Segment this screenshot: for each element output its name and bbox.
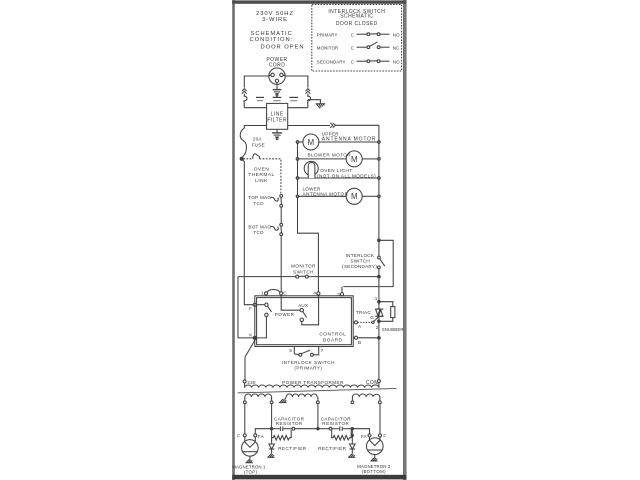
labels capacitor/resistor 2 <box>321 416 352 426</box>
junction: fuse output <box>240 157 243 160</box>
svg-text:C: C <box>351 45 354 50</box>
motor right bus wire <box>378 142 380 240</box>
junction: B wire on bus <box>378 337 381 340</box>
resistor (HV2) <box>329 427 351 440</box>
svg-text:BOARD: BOARD <box>323 337 343 343</box>
svg-text:RESISTOR: RESISTOR <box>322 421 349 426</box>
legend secondary switch <box>317 59 400 64</box>
magnetron 1 terminal FA <box>254 434 265 439</box>
magnetron 1 <box>232 437 266 475</box>
pin A <box>353 321 362 329</box>
svg-text:F: F <box>237 434 240 439</box>
svg-text:(TOP): (TOP) <box>244 469 258 474</box>
rectifier D2 <box>318 430 355 458</box>
capacitor (HV1) <box>273 426 292 431</box>
svg-text:NO: NO <box>393 32 400 37</box>
svg-text:ANTENNA MOTOR: ANTENNA MOTOR <box>303 192 349 197</box>
power transformer T1 <box>238 380 397 404</box>
svg-text:SECONDARY: SECONDARY <box>317 59 346 64</box>
monitor switch <box>238 264 378 278</box>
svg-text:8: 8 <box>289 348 292 353</box>
svg-text:3-WIRE: 3-WIRE <box>262 17 288 23</box>
fuse F1 20A <box>240 128 265 157</box>
magnetron 1 terminal F <box>237 434 246 439</box>
svg-text:M: M <box>308 138 315 147</box>
svg-text:7: 7 <box>321 348 324 353</box>
svg-text:FA: FA <box>258 434 265 439</box>
svg-text:SNUBBER: SNUBBER <box>382 327 404 332</box>
transformer core <box>238 389 397 393</box>
wire: between TCOs <box>280 207 282 223</box>
svg-text:TCO: TCO <box>253 201 264 206</box>
connector chevrons (output) <box>330 123 335 128</box>
svg-text:AUX: AUX <box>298 303 308 308</box>
magnetron 2 terminal F <box>379 434 387 439</box>
svg-text:NO: NO <box>393 59 400 64</box>
svg-text:C: C <box>283 291 287 296</box>
svg-text:(SECONDARY): (SECONDARY) <box>342 264 377 269</box>
svg-text:230: 230 <box>247 380 256 385</box>
wire: bypass from bus junction to pin 3 <box>343 240 393 286</box>
inductor loop right <box>308 94 311 108</box>
interlock switch secondary <box>342 239 385 275</box>
svg-text:B: B <box>358 340 361 345</box>
svg-text:K: K <box>249 332 253 337</box>
wire: cord left leg <box>244 75 271 88</box>
svg-text:TOP MAG: TOP MAG <box>248 195 271 200</box>
svg-text:MONITOR: MONITOR <box>317 45 339 50</box>
oven thermal link <box>243 154 281 195</box>
svg-text:F: F <box>249 306 252 311</box>
connector chevrons left <box>242 89 247 94</box>
title: 230V 50HZ 3-WIRE <box>256 11 294 23</box>
wire: to right bus corner <box>335 125 379 142</box>
svg-text:1: 1 <box>261 291 264 296</box>
wire: pin K to transformer 230 <box>245 339 255 380</box>
svg-text:FUSE: FUSE <box>252 142 265 147</box>
wire: rail to FA2 <box>354 429 370 434</box>
capacitor (line filter) 2 <box>273 97 282 100</box>
triac Q1 <box>356 296 384 337</box>
interlock switch primary <box>282 347 335 371</box>
snubber R-C <box>380 302 403 332</box>
svg-text:M: M <box>351 155 358 164</box>
interlock switch schematic legend box <box>312 5 402 72</box>
wire: right leg to chassis ground <box>308 100 321 104</box>
svg-text:TCO: TCO <box>253 230 264 235</box>
junction: monitor to right bus <box>378 275 381 278</box>
wire: bus down to triac <box>378 278 380 301</box>
svg-text:INTERLOCK SWITCH: INTERLOCK SWITCH <box>282 360 335 365</box>
junction: G1 right leg on HV rail <box>270 404 272 430</box>
top mag TCO <box>248 195 282 208</box>
svg-text:FILTER: FILTER <box>267 117 287 123</box>
svg-text:MONITOR: MONITOR <box>291 264 316 269</box>
legend primary switch <box>317 32 400 37</box>
svg-text:POWER TRANSFORMER: POWER TRANSFORMER <box>282 380 344 385</box>
pin 4 <box>313 291 320 296</box>
svg-text:RESISTOR: RESISTOR <box>276 421 303 426</box>
svg-text:SWITCH: SWITCH <box>350 258 370 263</box>
svg-text:RECTIFIER: RECTIFIER <box>278 446 307 451</box>
svg-text:BLOWER MOTOR: BLOWER MOTOR <box>308 153 352 158</box>
svg-text:3: 3 <box>337 292 340 297</box>
svg-text:CONDITION:: CONDITION: <box>250 37 294 43</box>
svg-text:(NOT ON ALL MODELS): (NOT ON ALL MODELS) <box>317 174 376 179</box>
aux switch (on board) <box>281 295 318 325</box>
svg-text:C: C <box>351 32 354 37</box>
oven light LP1 <box>296 161 380 179</box>
junction: HV winding to rail <box>317 404 319 430</box>
svg-text:(PRIMARY): (PRIMARY) <box>294 365 322 370</box>
svg-text:F: F <box>383 434 386 439</box>
legend monitor switch <box>317 42 400 51</box>
pin K <box>249 332 256 339</box>
pin F <box>253 303 256 306</box>
wire: G3 right to F2 <box>379 404 381 434</box>
earth ground (power cord) <box>273 83 282 97</box>
labels capacitor/resistor 1 <box>274 416 305 426</box>
magnetron 2 terminal FA <box>361 434 371 439</box>
svg-text:1: 1 <box>375 296 378 301</box>
svg-text:ANTENNA MOTOR: ANTENNA MOTOR <box>322 137 377 143</box>
pin 1 <box>261 291 268 296</box>
pin 8 <box>289 347 294 355</box>
line filter FL1 <box>267 103 288 129</box>
resistor (HV1) <box>272 427 317 440</box>
secondary winding 1 (mag1 filament) <box>245 394 272 397</box>
svg-text:DOOR CLOSED: DOOR CLOSED <box>336 21 378 27</box>
wire: HV rail right segment <box>319 428 329 430</box>
wire: right leg into filter <box>288 107 308 109</box>
wire: FA up and HV rail left <box>255 429 270 434</box>
upper antenna motor M1 <box>296 132 380 150</box>
blower motor M2 <box>296 151 380 167</box>
jumper pin1 to pinC <box>267 290 279 293</box>
wire: filter right output to right bus <box>288 125 330 127</box>
svg-text:M: M <box>351 192 358 201</box>
svg-text:C: C <box>351 59 354 64</box>
svg-text:FA: FA <box>361 434 368 439</box>
wire: bus B junction down to COM <box>378 339 380 379</box>
wire: TCO chain down to pin C <box>280 236 282 292</box>
capacitor (line filter) 1 <box>256 97 264 100</box>
svg-text:OVEN LIGHT: OVEN LIGHT <box>320 168 352 173</box>
connector chevrons right <box>306 89 311 94</box>
rectifier D1 <box>267 438 306 458</box>
svg-text:A: A <box>358 324 362 329</box>
svg-text:CONTROL: CONTROL <box>319 332 346 338</box>
motor left bus wire <box>298 142 319 292</box>
pin B <box>353 336 361 345</box>
wire: monitor left to pin K <box>238 277 253 338</box>
secondary winding 3 (mag2 filament) <box>352 394 380 397</box>
svg-text:TRIAC: TRIAC <box>356 310 371 315</box>
svg-text:OVEN: OVEN <box>254 167 270 173</box>
svg-text:G: G <box>370 315 374 320</box>
svg-text:POWER: POWER <box>275 312 295 317</box>
svg-text:(BOTTOM): (BOTTOM) <box>362 469 386 474</box>
inductor loop left <box>244 94 247 108</box>
wire: pin B to bus <box>358 337 378 339</box>
capacitor (HV2) <box>332 426 351 431</box>
pin C <box>280 291 288 296</box>
magnetron 2 <box>357 437 391 474</box>
wire: fuse junction down to pin F <box>243 160 254 305</box>
lower antenna motor M3 <box>296 186 380 204</box>
capacitor (line filter) 3 <box>289 97 298 100</box>
svg-text:BOT MAG: BOT MAG <box>248 224 271 229</box>
svg-text:THERMAL: THERMAL <box>248 172 274 178</box>
wire: filter left output <box>244 126 266 129</box>
pin 3 <box>337 287 343 297</box>
svg-text:RECTIFIER: RECTIFIER <box>318 446 347 451</box>
svg-text:SCHEMATIC: SCHEMATIC <box>251 31 293 37</box>
svg-text:PRIMARY: PRIMARY <box>317 32 338 37</box>
earth ground (line filter) <box>272 129 282 139</box>
wire: left leg into filter <box>244 107 266 109</box>
svg-text:SWITCH: SWITCH <box>293 270 314 275</box>
wire: cord right leg <box>283 75 308 88</box>
wire: G1 left to F terminal <box>244 404 246 434</box>
wire: pin A to triac gate <box>358 321 372 323</box>
control board <box>255 296 353 347</box>
junction: rail to rectifier 2 <box>351 428 353 430</box>
power cord P1 <box>266 57 287 84</box>
chassis ground (right of cord) <box>316 104 326 109</box>
svg-text:DOOR OPEN: DOOR OPEN <box>261 45 305 51</box>
svg-text:4: 4 <box>313 291 316 296</box>
chassis ground (HV winding) <box>279 399 287 403</box>
title: schematic condition door open <box>250 31 305 51</box>
svg-text:2: 2 <box>376 325 379 330</box>
secondary winding 2 (HV) <box>285 397 286 399</box>
svg-text:NC: NC <box>393 45 400 50</box>
bot mag TCO <box>248 223 282 235</box>
svg-text:SCHEMATIC: SCHEMATIC <box>340 14 373 20</box>
power switch (on board) <box>256 303 294 338</box>
svg-text:LINK: LINK <box>255 178 268 184</box>
svg-text:20A: 20A <box>253 136 263 141</box>
